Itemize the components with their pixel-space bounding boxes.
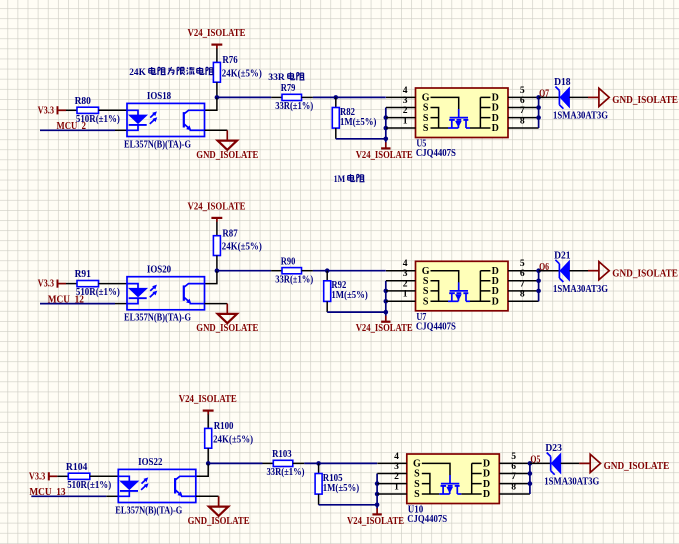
power port V24_ISOLATE (below U5) bbox=[356, 142, 413, 161]
comment text "1M电阻" bbox=[334, 174, 365, 185]
junction node A bbox=[206, 461, 211, 466]
svg-text:V24_ISOLATE: V24_ISOLATE bbox=[179, 394, 237, 405]
svg-text:S: S bbox=[414, 489, 420, 500]
pin 1 of U7 bbox=[386, 289, 416, 302]
svg-text:S: S bbox=[423, 297, 429, 308]
power port V24_ISOLATE (top, above R100) bbox=[179, 394, 237, 415]
light arrows inside IOS20 bbox=[150, 285, 157, 297]
svg-text:R91: R91 bbox=[75, 269, 91, 280]
svg-text:IOS20: IOS20 bbox=[147, 265, 171, 276]
wire V24 to R87 bbox=[216, 222, 218, 236]
svg-text:IOS18: IOS18 bbox=[147, 91, 171, 102]
junction node A bbox=[215, 95, 220, 100]
wire R104 to IOS22 bbox=[90, 475, 119, 477]
svg-text:24K(±5%): 24K(±5%) bbox=[222, 242, 262, 253]
svg-text:D21: D21 bbox=[554, 250, 571, 261]
wire into IOS20 anode-cathode pin bbox=[115, 303, 127, 305]
optocoupler IOS18 EL357N body bbox=[127, 103, 205, 136]
wire junction to R103 bbox=[208, 462, 262, 464]
pin 6 of U7 bbox=[508, 268, 539, 281]
LED inside IOS20 bbox=[127, 284, 147, 304]
internal drain bracket of U7 bbox=[470, 271, 490, 302]
svg-text:GND_ISOLATE: GND_ISOLATE bbox=[196, 150, 258, 161]
mosfet symbol inside U5 bbox=[448, 109, 470, 128]
mosfet array U7 CJQ4407S body bbox=[416, 261, 509, 311]
internal source bracket of U10 bbox=[422, 474, 440, 495]
svg-text:R76: R76 bbox=[222, 55, 237, 66]
svg-text:8: 8 bbox=[511, 481, 516, 492]
wire R90 to junction B bbox=[313, 270, 386, 272]
power port GND_ISOLATE (right, arrow style) bbox=[588, 88, 678, 106]
wire drain bus (pins 5,6,7,8 of U10) bbox=[529, 463, 531, 494]
pin 7 of U5 bbox=[508, 105, 539, 118]
svg-text:V3.3: V3.3 bbox=[29, 471, 45, 482]
wire diode D18 to GND port bbox=[569, 96, 588, 98]
light arrows inside IOS18 bbox=[150, 112, 157, 124]
internal drain bracket of U5 bbox=[470, 97, 490, 128]
wire junction down to IOS18 collector bbox=[205, 97, 217, 110]
pin 2 of U5 bbox=[386, 105, 416, 118]
svg-text:CJQ4407S: CJQ4407S bbox=[416, 322, 456, 333]
pin 7 of U10 bbox=[499, 471, 530, 484]
wire junction down to IOS22 collector bbox=[196, 463, 208, 476]
svg-text:2: 2 bbox=[403, 105, 408, 116]
svg-text:8: 8 bbox=[520, 115, 525, 126]
svg-text:V3.3: V3.3 bbox=[38, 279, 54, 290]
wire into IOS18 anode-cathode pin bbox=[115, 129, 127, 131]
svg-text:IOS22: IOS22 bbox=[138, 457, 162, 468]
wire V24 to R76 bbox=[216, 49, 218, 63]
resistor R92 1M bbox=[324, 271, 368, 312]
pin 3 of U7 bbox=[386, 268, 416, 281]
phototransistor inside IOS20 bbox=[184, 284, 205, 304]
junction pin 6 bus bbox=[536, 279, 541, 284]
svg-text:7: 7 bbox=[520, 278, 525, 289]
power port V3.3 bbox=[38, 279, 66, 290]
svg-text:24K(±5%): 24K(±5%) bbox=[222, 68, 262, 79]
power port V3.3 bbox=[29, 471, 57, 482]
junction pin 7 bus bbox=[536, 289, 541, 294]
phototransistor inside IOS22 bbox=[175, 476, 196, 496]
svg-text:V24_ISOLATE: V24_ISOLATE bbox=[188, 28, 246, 39]
svg-text:D: D bbox=[492, 113, 499, 124]
svg-text:V3.3: V3.3 bbox=[38, 105, 54, 116]
power port V24_ISOLATE (top, above R87) bbox=[188, 202, 246, 223]
svg-text:V24_ISOLATE: V24_ISOLATE bbox=[347, 516, 404, 527]
svg-text:R100: R100 bbox=[214, 421, 234, 432]
wire IOS20 emitter to GND bbox=[205, 303, 228, 305]
internal source bracket of U5 bbox=[431, 108, 449, 129]
wire R92 to V24 bus bbox=[327, 311, 386, 313]
resistor R87 24K bbox=[213, 229, 261, 256]
wire source bus (pins 3,2,1 of U10) bbox=[376, 474, 378, 509]
junction node B bbox=[325, 268, 330, 273]
wire R103 to junction B bbox=[304, 462, 377, 464]
junction 1M-wire bus bbox=[375, 503, 380, 508]
junction node A bbox=[215, 268, 220, 273]
resistor R76 24K bbox=[213, 55, 261, 82]
pin 5 of U7 bbox=[508, 258, 539, 271]
junction pin 6 bus bbox=[536, 105, 541, 110]
svg-text:1: 1 bbox=[394, 481, 399, 492]
comment text "24K电阻为限流电阻" bbox=[129, 67, 213, 78]
junction 1M-wire bus bbox=[384, 137, 389, 142]
svg-text:1SMA30AT3G: 1SMA30AT3G bbox=[553, 284, 608, 295]
power port V3.3 bbox=[38, 105, 66, 116]
svg-text:S: S bbox=[423, 286, 429, 297]
pin 3 of U5 bbox=[386, 95, 416, 108]
power port GND_ISOLATE (below IOS20) bbox=[196, 304, 258, 335]
resistor R82 1M bbox=[332, 97, 376, 138]
resistor R103 33R bbox=[263, 449, 305, 478]
svg-text:1SMA30AT3G: 1SMA30AT3G bbox=[553, 111, 608, 122]
wire IOS22 emitter to GND bbox=[196, 495, 219, 497]
svg-text:R104: R104 bbox=[66, 462, 88, 473]
svg-text:D: D bbox=[492, 286, 499, 297]
optocoupler IOS22 EL357N body bbox=[118, 469, 196, 502]
svg-text:1M(±5%): 1M(±5%) bbox=[323, 483, 359, 494]
svg-text:2: 2 bbox=[394, 471, 399, 482]
resistor R91 510R bbox=[66, 269, 120, 298]
power port V24_ISOLATE (below U7) bbox=[356, 316, 413, 335]
junction pin 2 bus bbox=[384, 115, 389, 120]
pin 6 of U10 bbox=[499, 461, 530, 474]
light arrows inside IOS22 bbox=[141, 478, 148, 490]
optocoupler IOS20 EL357N body bbox=[127, 277, 205, 310]
svg-text:R87: R87 bbox=[222, 229, 237, 240]
wire into IOS22 anode-cathode pin bbox=[106, 495, 118, 497]
pin 6 of U5 bbox=[508, 95, 539, 108]
svg-text:GND_ISOLATE: GND_ISOLATE bbox=[612, 95, 678, 106]
power port V24_ISOLATE (below U10) bbox=[347, 508, 404, 527]
mosfet symbol inside U7 bbox=[448, 282, 470, 301]
pin 4 of U7 bbox=[386, 258, 416, 271]
svg-text:V24_ISOLATE: V24_ISOLATE bbox=[356, 150, 413, 161]
internal source bracket of U7 bbox=[431, 281, 449, 302]
mosfet array U10 CJQ4407S body bbox=[407, 454, 500, 504]
junction pin 7 bus bbox=[536, 115, 541, 120]
wire drain bus (pins 5,6,7,8 of U5) bbox=[538, 97, 540, 128]
wire MCU_13 bbox=[31, 495, 106, 497]
svg-text:D18: D18 bbox=[554, 77, 571, 88]
junction node B bbox=[334, 95, 339, 100]
wire R79 to junction B bbox=[313, 96, 386, 98]
svg-text:GND_ISOLATE: GND_ISOLATE bbox=[604, 461, 670, 472]
junction pin 7 bus bbox=[528, 481, 533, 486]
internal gate wire of U7 bbox=[431, 271, 459, 283]
wire IOS18 emitter to GND bbox=[205, 129, 228, 131]
pin 5 of U5 bbox=[508, 85, 539, 98]
svg-text:2: 2 bbox=[403, 278, 408, 289]
wire R105 to V24 bus bbox=[319, 504, 378, 506]
wire junction down to IOS20 collector bbox=[205, 271, 217, 284]
pin 4 of U5 bbox=[386, 85, 416, 98]
svg-text:S: S bbox=[423, 123, 429, 134]
svg-text:V24_ISOLATE: V24_ISOLATE bbox=[356, 323, 413, 334]
svg-text:D: D bbox=[492, 297, 499, 308]
wire source bus (pins 3,2,1 of U7) bbox=[385, 281, 387, 316]
svg-text:1M: 1M bbox=[334, 174, 346, 185]
junction node B bbox=[316, 461, 321, 466]
pin 3 of U10 bbox=[377, 461, 407, 474]
resistor R80 510R bbox=[66, 96, 120, 125]
svg-text:R80: R80 bbox=[75, 96, 91, 107]
svg-text:GND_ISOLATE: GND_ISOLATE bbox=[196, 323, 258, 334]
wire V24 to R100 bbox=[207, 415, 209, 429]
junction pin 2 bus bbox=[384, 289, 389, 294]
TVS diode D18 1SMA30AT3G bbox=[553, 77, 608, 122]
svg-text:1: 1 bbox=[403, 115, 408, 126]
mosfet symbol inside U10 bbox=[439, 475, 461, 494]
svg-text:7: 7 bbox=[511, 471, 516, 482]
pin 7 of U7 bbox=[508, 278, 539, 291]
svg-text:D: D bbox=[483, 489, 490, 500]
svg-text:24K: 24K bbox=[129, 67, 146, 78]
power port GND_ISOLATE (below IOS22) bbox=[188, 496, 250, 527]
wire source bus (pins 3,2,1 of U5) bbox=[385, 108, 387, 143]
pin 4 of U10 bbox=[377, 451, 407, 464]
wire R82 to V24 bus bbox=[336, 138, 386, 140]
pin 5 of U10 bbox=[499, 451, 530, 464]
pin 1 of U5 bbox=[386, 115, 416, 128]
svg-text:8: 8 bbox=[520, 289, 525, 300]
svg-text:GND_ISOLATE: GND_ISOLATE bbox=[188, 516, 250, 527]
svg-text:D: D bbox=[492, 123, 499, 134]
junction pin 5 bus bbox=[536, 95, 541, 100]
svg-text:D: D bbox=[483, 479, 490, 490]
svg-text:R79: R79 bbox=[281, 83, 296, 94]
LED inside IOS18 bbox=[127, 110, 147, 130]
svg-text:S: S bbox=[414, 479, 420, 490]
comment text "33R电阻" bbox=[268, 72, 304, 83]
wire R80 to IOS18 bbox=[99, 109, 128, 111]
TVS diode D21 1SMA30AT3G bbox=[553, 250, 608, 295]
wire bus to diode D23 bbox=[530, 462, 552, 464]
junction pin 1 bus bbox=[384, 299, 389, 304]
wire R87 to junction bbox=[216, 256, 218, 271]
pin 2 of U7 bbox=[386, 278, 416, 291]
svg-text:1SMA30AT3G: 1SMA30AT3G bbox=[544, 477, 599, 488]
svg-text:24K(±5%): 24K(±5%) bbox=[213, 434, 253, 445]
svg-text:V24_ISOLATE: V24_ISOLATE bbox=[188, 202, 246, 213]
svg-text:R103: R103 bbox=[272, 449, 292, 460]
LED inside IOS22 bbox=[118, 476, 138, 496]
svg-text:EL357N(B)(TA)-G: EL357N(B)(TA)-G bbox=[124, 139, 191, 150]
junction pin 5 bus bbox=[528, 461, 533, 466]
mosfet array U5 CJQ4407S body bbox=[416, 88, 509, 138]
resistor R100 24K bbox=[205, 421, 253, 448]
svg-text:33R(±1%): 33R(±1%) bbox=[275, 101, 313, 112]
wire MCU_12 bbox=[40, 303, 115, 305]
pin 2 of U10 bbox=[377, 471, 407, 484]
svg-text:7: 7 bbox=[520, 105, 525, 116]
svg-text:EL357N(B)(TA)-G: EL357N(B)(TA)-G bbox=[115, 505, 182, 516]
junction 1M-wire bus bbox=[384, 310, 389, 315]
svg-text:33R(±1%): 33R(±1%) bbox=[267, 467, 305, 478]
svg-text:1: 1 bbox=[403, 289, 408, 300]
svg-text:33R(±1%): 33R(±1%) bbox=[275, 275, 313, 286]
power port GND_ISOLATE (right, arrow style) bbox=[588, 262, 678, 280]
internal gate wire of U10 bbox=[422, 463, 450, 475]
svg-text:33R: 33R bbox=[268, 72, 285, 83]
resistor R105 1M bbox=[315, 463, 359, 504]
wire bus to diode D18 bbox=[539, 96, 561, 98]
pin 8 of U10 bbox=[499, 481, 530, 494]
svg-text:CJQ4407S: CJQ4407S bbox=[407, 514, 447, 525]
power port GND_ISOLATE (below IOS18) bbox=[196, 130, 258, 161]
svg-text:1M(±5%): 1M(±5%) bbox=[331, 290, 367, 301]
wire R76 to junction bbox=[216, 82, 218, 97]
wire R91 to IOS20 bbox=[99, 283, 128, 285]
pin 1 of U10 bbox=[377, 481, 407, 494]
junction pin 6 bus bbox=[528, 471, 533, 476]
wire junction to R90 bbox=[217, 270, 271, 272]
wire diode D21 to GND port bbox=[569, 270, 588, 272]
pin 8 of U7 bbox=[508, 289, 539, 302]
svg-text:S: S bbox=[423, 113, 429, 124]
resistor R104 510R bbox=[57, 462, 111, 491]
power port GND_ISOLATE (right, arrow style) bbox=[579, 454, 669, 472]
junction pin 2 bus bbox=[375, 481, 380, 486]
wire bus to diode D21 bbox=[539, 270, 561, 272]
svg-text:1M(±5%): 1M(±5%) bbox=[340, 117, 376, 128]
internal drain bracket of U10 bbox=[461, 463, 481, 494]
pin 8 of U5 bbox=[508, 115, 539, 128]
phototransistor inside IOS18 bbox=[184, 110, 205, 130]
junction pin 1 bus bbox=[375, 492, 380, 497]
svg-text:EL357N(B)(TA)-G: EL357N(B)(TA)-G bbox=[124, 313, 191, 324]
wire diode D23 to GND port bbox=[561, 462, 580, 464]
svg-text:CJQ4407S: CJQ4407S bbox=[416, 148, 456, 159]
wire MCU_2 bbox=[40, 129, 115, 131]
svg-text:R90: R90 bbox=[281, 257, 296, 268]
junction pin 1 bus bbox=[384, 126, 389, 131]
svg-text:GND_ISOLATE: GND_ISOLATE bbox=[612, 269, 678, 280]
svg-text:510R(±1%): 510R(±1%) bbox=[67, 480, 111, 491]
wire junction to R79 bbox=[217, 96, 271, 98]
resistor R79 33R bbox=[271, 83, 313, 112]
TVS diode D23 1SMA30AT3G bbox=[544, 443, 599, 488]
power port V24_ISOLATE (top, above R76) bbox=[188, 28, 246, 49]
internal gate wire of U5 bbox=[431, 97, 459, 109]
resistor R90 33R bbox=[271, 257, 313, 286]
junction pin 5 bus bbox=[536, 268, 541, 273]
wire drain bus (pins 5,6,7,8 of U7) bbox=[538, 271, 540, 302]
wire R100 to junction bbox=[207, 448, 209, 463]
svg-text:D23: D23 bbox=[545, 443, 562, 454]
